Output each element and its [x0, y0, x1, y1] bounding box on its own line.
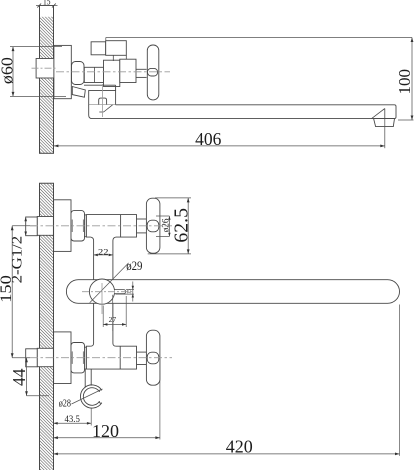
diverter knob (top view) — [99, 98, 107, 105]
lower supply stub — [37, 348, 53, 366]
centerline supply axis (top view) — [32, 67, 58, 69]
upper tube and bonnet — [86, 215, 136, 238]
svg-text:100: 100 — [395, 69, 414, 95]
handle stem (top view) — [136, 68, 147, 70]
lower handle hub — [147, 352, 159, 364]
svg-text:120: 120 — [92, 421, 119, 441]
down pipe upper segment — [91, 237, 94, 280]
tube internal diagonal (top view left) — [99, 111, 103, 113]
dimension 150 — [12, 225, 36, 227]
dimension 27 — [102, 306, 104, 328]
nozzle (top view) — [374, 119, 395, 127]
dimension o60 — [10, 46, 62, 48]
svg-text:22: 22 — [98, 247, 109, 256]
lower escutcheon — [54, 332, 71, 384]
escutcheon o60 (top view) — [54, 45, 71, 98]
hook stem — [84, 369, 86, 387]
stub dimension ticks — [126, 289, 134, 291]
lower ring washer — [85, 347, 87, 369]
spout elbow piece (top view) — [72, 87, 85, 98]
dimension 22 — [94, 254, 113, 256]
dimension 43.5 — [90, 408, 92, 426]
lower handle stem — [137, 351, 147, 353]
svg-text:ø28: ø28 — [59, 398, 71, 409]
svg-text:420: 420 — [226, 437, 253, 457]
svg-text:44: 44 — [9, 368, 29, 386]
svg-text:ø29: ø29 — [126, 258, 142, 273]
o29 leader — [90, 263, 129, 303]
svg-text:62.5: 62.5 — [170, 208, 192, 243]
spout pivot square (top view) — [89, 91, 116, 105]
2-G1/2 dimension arrows on stub — [24, 217, 27, 221]
pivot nut circle o29 — [89, 279, 114, 304]
wall section (top view) hatched bar — [40, 6, 54, 154]
spout end diagonal (top view) — [372, 109, 385, 119]
pivot centerline (top view) — [101, 84, 103, 117]
dimension 120 — [159, 359, 161, 440]
centerlines drawn on top — [30, 68, 172, 358]
dimension 44 — [26, 358, 28, 396]
bonnet top blocks (top view) — [91, 42, 106, 55]
lower valve centerline (front view) — [30, 357, 172, 359]
connector barrel (top view) — [72, 62, 85, 85]
upper handle stem — [137, 218, 147, 220]
centerline valve axis (top view) — [56, 71, 170, 73]
lower cross handle — [146, 330, 160, 385]
valve block 1 (top view) — [84, 67, 103, 82]
handle hub (top view) — [148, 68, 158, 76]
svg-text:43.5: 43.5 — [65, 414, 81, 424]
lower tube and bonnet — [86, 346, 136, 369]
down pipe lower segment — [91, 303, 94, 346]
cross handle side view (top view) — [147, 45, 159, 100]
spout (front view) — [66, 280, 399, 304]
upper supply stub — [37, 217, 53, 236]
o28 label and leader — [72, 389, 103, 404]
spout centerline (front view) — [82, 291, 134, 293]
dimension 406 — [384, 119, 386, 149]
dimension 100 — [106, 37, 412, 39]
upper wall nut (scalloped) — [71, 211, 85, 241]
dimension o26 bracket — [156, 215, 169, 217]
valve block 3 (top view) — [120, 59, 136, 82]
svg-text:406: 406 — [195, 129, 222, 149]
wall section (front view) hatched bar — [40, 183, 54, 470]
svg-text:ø60: ø60 — [0, 57, 17, 84]
svg-text:150: 150 — [0, 275, 15, 303]
svg-text:15: 15 — [43, 0, 51, 7]
spout tube (top view) — [89, 105, 396, 119]
upper ring washer — [85, 215, 87, 237]
upper valve centerline (front view) — [30, 225, 172, 227]
upper cross handle — [146, 198, 160, 253]
pivot vertical centerline (front view) — [101, 283, 103, 314]
lower wall nut (scalloped) — [71, 343, 85, 373]
shower hook o28 — [80, 385, 101, 408]
supply block through wall (top view) — [36, 59, 54, 79]
dimension 62.5 — [155, 197, 191, 199]
upper handle hub — [147, 220, 159, 232]
diverter stub — [115, 290, 126, 294]
dimension 420 — [399, 305, 401, 456]
valve block 2 (top view) — [104, 60, 120, 86]
upper escutcheon — [54, 200, 71, 252]
svg-text:27: 27 — [109, 315, 117, 324]
dimension 15 (wall thickness) — [36, 5, 58, 7]
